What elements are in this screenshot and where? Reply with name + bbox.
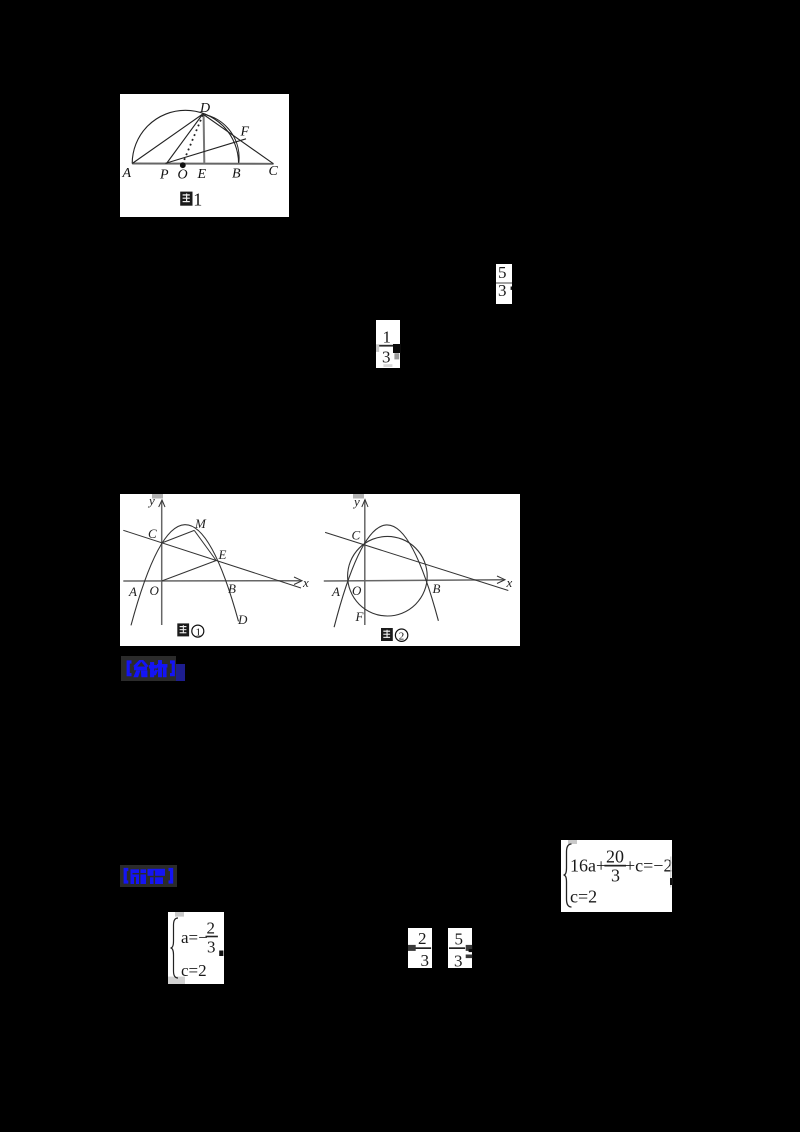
dark gray mark right upper [466, 945, 473, 951]
svg-text:A: A [331, 584, 340, 599]
fraction -2/3 [408, 928, 432, 968]
svg-text:+c=−2: +c=−2 [625, 856, 672, 876]
graph1 parabola [131, 525, 239, 626]
svg-text:20: 20 [606, 847, 624, 867]
svg-text:a=−: a=− [181, 928, 208, 947]
graph1 y-axis [161, 501, 163, 625]
svg-text:3: 3 [207, 938, 216, 957]
graph2 gray smudge at y-axis top [353, 494, 364, 499]
svg-text:D: D [199, 101, 210, 116]
gray scan notch bottom-left [168, 977, 185, 984]
svg-text:O: O [352, 583, 362, 598]
svg-text:3: 3 [454, 952, 463, 969]
graph2 x-axis [324, 580, 504, 581]
graph1 line through C,E [123, 530, 301, 588]
svg-text:A: A [122, 166, 132, 181]
graph1 x-axis arrowhead [294, 577, 302, 585]
svg-text:3: 3 [498, 281, 507, 300]
dark gray mark right lower [466, 955, 473, 959]
right lenticular bracket [169, 870, 172, 883]
svg-text:O: O [150, 583, 160, 598]
dark notch at right edge [511, 287, 512, 290]
figure panel 2 (图1/图2 graphs) [120, 494, 520, 646]
svg-text:A: A [128, 584, 137, 599]
gray mark right [394, 353, 399, 359]
svg-text:F: F [355, 609, 365, 624]
graph2 line through C [325, 532, 508, 590]
svg-text:3: 3 [611, 866, 620, 886]
svg-text:c=2: c=2 [181, 961, 207, 980]
navy selection block [176, 664, 185, 681]
left lenticular bracket [128, 662, 131, 675]
faint cursor line at right edge [670, 857, 671, 888]
svg-text:B: B [433, 581, 441, 596]
caption 图(1) [177, 623, 204, 638]
svg-text:D: D [237, 612, 248, 627]
fraction bar 20/3 [604, 865, 626, 867]
svg-text:C: C [352, 528, 361, 543]
graph2 y-axis arrowhead [362, 500, 368, 508]
equation box 2: {a=-2/3 ; c=2 [168, 912, 224, 984]
gray scan smudge bottom [383, 364, 392, 367]
caption 图(2) [381, 628, 408, 643]
svg-text:C: C [269, 164, 279, 179]
dotted D-O [184, 115, 203, 161]
svg-text:O: O [178, 168, 188, 183]
svg-text:1: 1 [193, 190, 202, 210]
fraction bar [449, 947, 465, 949]
dark minus sign block at left edge [408, 945, 416, 951]
black comma tick [469, 949, 473, 952]
graph2 circle through A,B,C,F [348, 536, 428, 616]
svg-text:B: B [228, 581, 236, 596]
graph1 gray smudge at y-axis top [152, 494, 163, 499]
svg-text:E: E [197, 167, 207, 182]
right lenticular bracket [170, 662, 173, 675]
wire D-E vertical [203, 114, 206, 164]
wire A-D [132, 114, 203, 164]
inline fraction 1/3 [376, 320, 400, 368]
left lenticular bracket [125, 870, 128, 883]
svg-text:3: 3 [420, 951, 429, 968]
svg-text:x: x [506, 575, 513, 590]
svg-text:1: 1 [383, 328, 392, 347]
svg-text:B: B [232, 167, 241, 182]
label highlight box [120, 865, 177, 887]
svg-text:E: E [218, 547, 227, 562]
svg-text:5: 5 [498, 264, 507, 282]
label highlight box [121, 656, 176, 681]
wire D-C [203, 114, 274, 164]
glyphs 分析 [134, 661, 167, 677]
figure panel 1 (图1 geometry) [120, 94, 289, 217]
fraction 5/3 (second) [448, 928, 472, 968]
svg-text:x: x [302, 575, 309, 590]
svg-text:1: 1 [196, 627, 202, 639]
svg-text:c=2: c=2 [570, 887, 597, 907]
graph2 parabola [334, 525, 438, 627]
inline fraction 5/3 [496, 264, 512, 304]
system curly brace [171, 918, 179, 978]
node O dot [180, 162, 186, 168]
svg-text:C: C [148, 526, 157, 541]
comma after box 1 [670, 878, 673, 885]
svg-text:2: 2 [207, 919, 216, 938]
graph1 chord C-M [162, 530, 195, 543]
fraction bar 2/3 [206, 936, 218, 938]
gray scan notch top [568, 840, 577, 844]
blue label 1: 【分析】 [121, 656, 185, 681]
wire baseline A-C [132, 163, 273, 165]
graph2 x-axis arrowhead [497, 576, 505, 584]
svg-text:F: F [240, 125, 250, 140]
fraction bar [496, 282, 512, 284]
graph1 wire O-E [162, 561, 217, 582]
gray scan notch top [175, 912, 184, 917]
glyphs 解答 [131, 869, 166, 884]
equation box 1: {16a+20/3+c=-2 ; c=2 [561, 840, 672, 912]
svg-text:M: M [194, 516, 207, 531]
semicircle O (diameter AB) [132, 110, 238, 163]
svg-text:2: 2 [418, 929, 427, 948]
system curly brace [564, 844, 572, 907]
svg-text:5: 5 [455, 930, 464, 949]
gray scan smudge left [376, 344, 379, 352]
graph2 y-axis [364, 500, 366, 625]
caption 图1 [180, 190, 202, 210]
graph1 x-axis [123, 580, 301, 582]
svg-text:3: 3 [382, 348, 391, 367]
graph1 chord M-E [194, 530, 216, 560]
fraction bar [410, 947, 430, 949]
svg-text:2: 2 [399, 631, 405, 643]
black mark right of 1/3 [393, 344, 400, 352]
comma mark [219, 951, 223, 957]
svg-text:P: P [159, 168, 169, 183]
fraction bar [378, 345, 394, 347]
circle arc through D,F,B [203, 114, 239, 164]
graph1 y-axis arrowhead [159, 500, 165, 507]
svg-text:16a+: 16a+ [570, 856, 606, 876]
blue label 2: 【解答】 [120, 865, 177, 887]
wire P-F [165, 139, 246, 164]
wire D-P [167, 114, 203, 164]
